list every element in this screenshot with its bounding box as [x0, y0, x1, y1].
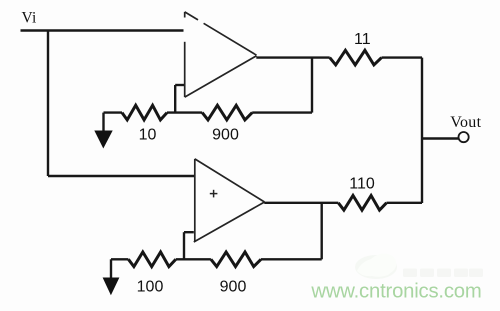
svg-text:100: 100: [137, 279, 164, 296]
svg-text:11: 11: [354, 31, 371, 48]
svg-text:10: 10: [139, 127, 157, 144]
svg-text:Vout: Vout: [450, 114, 481, 131]
svg-text:110: 110: [349, 176, 375, 193]
svg-text:900: 900: [220, 279, 247, 296]
svg-text:www.cntronics.com: www.cntronics.com: [310, 280, 481, 302]
svg-text:900: 900: [212, 127, 239, 144]
svg-text:Vi: Vi: [22, 10, 37, 27]
